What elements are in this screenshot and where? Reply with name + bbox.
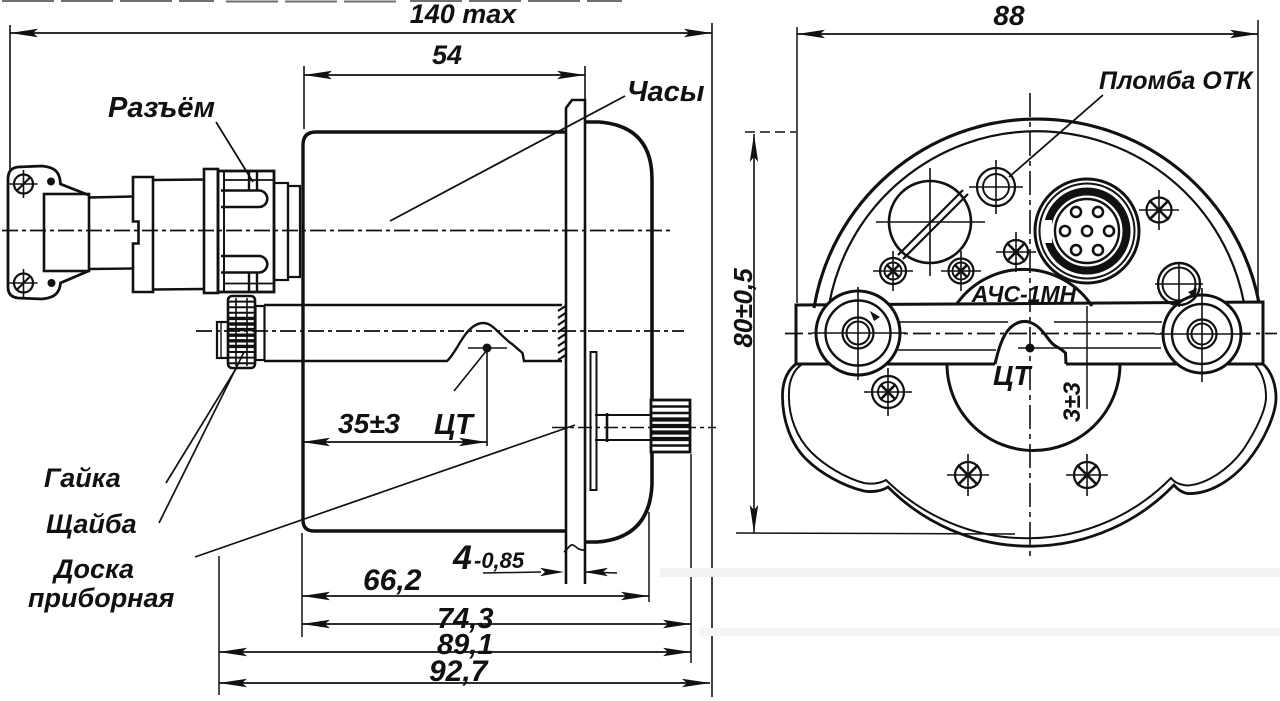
screw D — [1147, 198, 1172, 223]
svg-text:Гайка: Гайка — [44, 463, 121, 493]
svg-text:АЧС-1МН: АЧС-1МН — [971, 281, 1077, 307]
svg-text:Пломба ОТК: Пломба ОТК — [1099, 67, 1254, 95]
connector flange disc — [133, 177, 153, 292]
CT dot right view — [1026, 344, 1035, 353]
leader Plomba OTK — [1009, 95, 1103, 177]
extension line x219 — [218, 556, 220, 695]
svg-text:Щайба: Щайба — [46, 509, 137, 539]
left mounting boss — [816, 291, 900, 375]
cloverleaf outer outline — [782, 364, 1276, 546]
CT leader — [454, 350, 487, 391]
connector body cylinder — [153, 178, 204, 181]
winding shaft — [595, 414, 651, 416]
svg-text:35±3: 35±3 — [338, 408, 401, 439]
clock body outline — [303, 132, 566, 531]
nut (Gayka) knurled — [228, 296, 255, 368]
CT center of gravity dot — [483, 344, 492, 353]
svg-text:Часы: Часы — [627, 76, 705, 108]
svg-text:ЦТ: ЦТ — [434, 409, 475, 441]
bayonet J-channel bottom — [248, 273, 250, 293]
screw A — [880, 258, 906, 284]
connector neck cylinder — [89, 197, 133, 198]
axis line connector — [2, 230, 672, 232]
coupling flange ring — [204, 169, 218, 293]
shell end ring 1 — [274, 183, 288, 280]
svg-text:-0,85: -0,85 — [474, 548, 525, 573]
bayonet J-channel top — [248, 171, 250, 191]
extension line right x712 full height — [711, 23, 713, 697]
shaft shoulder — [606, 413, 609, 442]
main axis line body — [196, 330, 684, 332]
OTK seal screw — [977, 168, 1015, 206]
screw F — [955, 462, 981, 488]
plate rivet dots — [47, 178, 55, 186]
svg-text:140 max: 140 max — [410, 0, 518, 29]
plate screw top — [14, 175, 33, 194]
connector block — [44, 194, 89, 271]
rear plate — [591, 352, 597, 490]
band vertical x1087 — [1086, 306, 1088, 409]
hatched window circle — [889, 181, 971, 263]
extension line x649 — [648, 512, 650, 602]
washer (Shayba) — [217, 322, 228, 358]
central circle — [947, 364, 1120, 450]
extension line x302 — [301, 533, 303, 637]
screw B — [949, 259, 974, 284]
screw C — [1004, 240, 1028, 264]
screw G — [1074, 462, 1100, 488]
band bottom edges — [796, 363, 995, 366]
CT vertical extension — [486, 352, 488, 446]
scan artifacts faint — [660, 568, 1280, 577]
outer dome arc — [814, 119, 1259, 308]
bayonet shell — [218, 171, 274, 292]
band recess lines — [898, 321, 1008, 323]
winding knob knurled — [651, 400, 690, 452]
svg-text:54: 54 — [432, 40, 462, 70]
bayonet slot bottom — [221, 256, 267, 273]
extension line x691 — [690, 454, 692, 663]
leader Shayba — [159, 352, 244, 523]
panel break wave — [564, 545, 586, 552]
plate screw bottom — [14, 274, 33, 293]
leader Gayka — [166, 367, 237, 483]
svg-text:ЦТ: ЦТ — [993, 360, 1033, 391]
thread hatch at panel — [558, 306, 566, 360]
extension line left x10 — [9, 25, 11, 170]
leader Chasy — [390, 96, 625, 221]
scan edge artifact — [2, 0, 622, 3]
svg-text:66,2: 66,2 — [363, 564, 422, 597]
leader Razyem — [216, 122, 253, 182]
screw E — [872, 376, 904, 408]
CT hump right view — [995, 321, 1066, 364]
leader Doska pribornaya — [195, 425, 575, 557]
svg-text:3±3: 3±3 — [1059, 381, 1086, 422]
cloverleaf inner outline — [789, 365, 1266, 539]
shaft axis — [552, 427, 716, 429]
axis horizontal right view — [785, 333, 1277, 335]
body lower line with CT hump — [264, 323, 562, 361]
bottom reference line — [736, 533, 1015, 534]
bezel housing behind panel — [585, 122, 652, 542]
svg-text:Разъём: Разъём — [108, 92, 215, 124]
shell end ring 2 — [288, 186, 300, 277]
right mounting boss — [1163, 295, 1241, 373]
washer right — [256, 306, 265, 360]
svg-text:88: 88 — [993, 0, 1025, 31]
axis vertical right view — [1029, 93, 1031, 560]
instrument panel (doska) — [566, 100, 585, 584]
svg-text:приборная: приборная — [28, 583, 175, 613]
svg-text:Доска: Доска — [52, 554, 134, 584]
ACHS dome — [956, 269, 1092, 306]
bayonet slot top — [221, 191, 267, 208]
svg-text:4: 4 — [452, 539, 472, 577]
body stem upper line — [264, 304, 562, 306]
mounting band — [796, 302, 1263, 364]
connector mounting plate — [8, 167, 89, 299]
inner dome arc — [829, 131, 1244, 305]
7-pin connector rear — [1035, 179, 1139, 283]
right seal double circle — [1158, 263, 1200, 305]
